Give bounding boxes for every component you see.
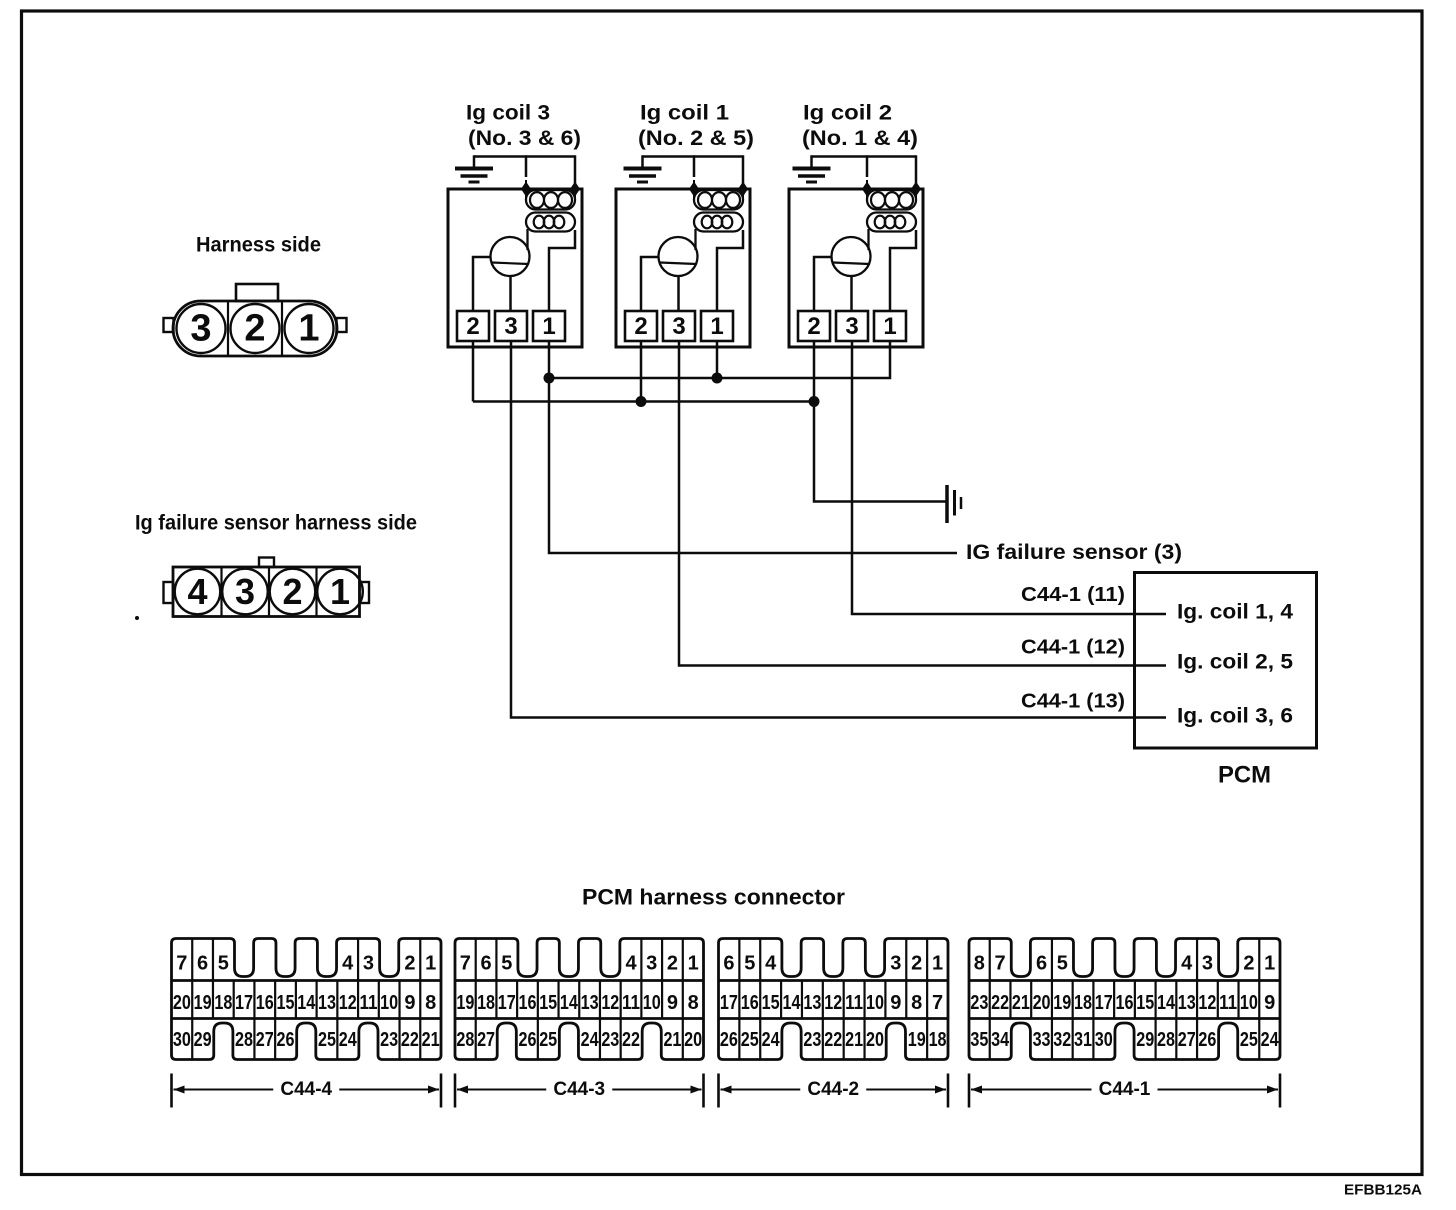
connector C44-3 xyxy=(455,939,704,1060)
svg-text:15: 15 xyxy=(1136,992,1154,1014)
svg-text:12: 12 xyxy=(824,992,842,1014)
svg-text:10: 10 xyxy=(380,992,398,1014)
svg-text:11: 11 xyxy=(359,992,377,1014)
wire secondary to transistor (coil 2) xyxy=(867,229,869,250)
ig coil 2 label xyxy=(802,102,918,151)
svg-text:25: 25 xyxy=(318,1029,336,1051)
svg-text:28: 28 xyxy=(456,1029,474,1051)
node primary right (coil 3) xyxy=(570,180,580,198)
svg-text:24: 24 xyxy=(1261,1029,1280,1051)
wire pin2 bus to ground xyxy=(814,402,946,502)
svg-text:24: 24 xyxy=(339,1029,358,1051)
PCM box xyxy=(1135,573,1317,749)
svg-text:1: 1 xyxy=(883,313,896,340)
wire supply bracket (coil 3) xyxy=(474,155,575,189)
svg-text:27: 27 xyxy=(477,1029,495,1051)
svg-text:13: 13 xyxy=(803,992,821,1014)
svg-text:18: 18 xyxy=(929,1029,947,1051)
svg-text:20: 20 xyxy=(1033,992,1051,1014)
stray mark xyxy=(135,616,139,620)
svg-text:1: 1 xyxy=(330,571,350,612)
primary winding (coil 2) xyxy=(867,190,916,210)
svg-text:24: 24 xyxy=(581,1029,600,1051)
svg-text:5: 5 xyxy=(218,953,229,975)
svg-text:22: 22 xyxy=(991,992,1009,1014)
power transistor (coil 2) xyxy=(832,237,871,276)
svg-text:35: 35 xyxy=(970,1029,988,1051)
svg-text:10: 10 xyxy=(643,992,661,1014)
svg-text:5: 5 xyxy=(744,953,755,975)
svg-text:21: 21 xyxy=(845,1029,863,1051)
svg-text:1: 1 xyxy=(542,313,555,340)
svg-text:17: 17 xyxy=(720,992,738,1014)
svg-text:4: 4 xyxy=(765,953,777,975)
svg-text:6: 6 xyxy=(481,953,492,975)
wire pin2 ground bus xyxy=(473,347,814,402)
svg-text:22: 22 xyxy=(401,1029,419,1051)
dimension C44-4 xyxy=(172,1074,442,1108)
wire coil2 pin3 to PCM C44-1 (11) xyxy=(852,347,1166,614)
svg-text:9: 9 xyxy=(890,992,901,1014)
wire secondary to transistor (coil 3) xyxy=(526,229,528,250)
ig coil 2 box xyxy=(789,189,923,347)
svg-text:8: 8 xyxy=(911,992,922,1014)
svg-text:4: 4 xyxy=(342,953,354,975)
svg-text:5: 5 xyxy=(501,953,512,975)
node primary right (coil 2) xyxy=(911,180,921,198)
svg-text:21: 21 xyxy=(422,1029,440,1051)
svg-text:3: 3 xyxy=(845,313,858,340)
secondary winding (coil 1) xyxy=(694,213,743,232)
svg-text:18: 18 xyxy=(1074,992,1092,1014)
svg-text:3: 3 xyxy=(646,953,657,975)
node primary left (coil 1) xyxy=(689,180,699,198)
svg-text:7: 7 xyxy=(460,953,471,975)
svg-text:EFBB125A: EFBB125A xyxy=(1344,1182,1422,1199)
connector C44-2 xyxy=(719,939,949,1060)
svg-text:2: 2 xyxy=(244,308,265,350)
svg-text:Ig. coil 1, 4: Ig. coil 1, 4 xyxy=(1177,601,1293,624)
svg-text:21: 21 xyxy=(1012,992,1030,1014)
svg-text:11: 11 xyxy=(1219,992,1237,1014)
ig coil 3 label xyxy=(466,102,581,151)
wire to IG failure sensor xyxy=(549,378,957,553)
svg-text:4: 4 xyxy=(1181,953,1193,975)
pin 3 terminal (coil 3) xyxy=(495,311,527,341)
primary winding (coil 1) xyxy=(694,190,743,210)
svg-text:29: 29 xyxy=(194,1029,212,1051)
svg-text:16: 16 xyxy=(1116,992,1134,1014)
dimension C44-2 xyxy=(719,1074,949,1108)
svg-text:7: 7 xyxy=(176,953,187,975)
svg-text:3: 3 xyxy=(190,308,211,350)
svg-text:23: 23 xyxy=(803,1029,821,1051)
svg-text:30: 30 xyxy=(1095,1029,1113,1051)
secondary winding (coil 2) xyxy=(867,213,916,232)
svg-text:31: 31 xyxy=(1074,1029,1092,1051)
wire pin stubs below terminals (coil 3) xyxy=(473,341,549,348)
wire pin stubs below terminals (coil 1) xyxy=(641,341,717,348)
svg-text:26: 26 xyxy=(720,1029,738,1051)
pin 1 terminal (coil 3) xyxy=(533,311,565,341)
svg-text:12: 12 xyxy=(339,992,357,1014)
svg-text:Ig. coil 3, 6: Ig. coil 3, 6 xyxy=(1177,705,1293,728)
pin 3 terminal (coil 1) xyxy=(663,311,695,341)
svg-text:34: 34 xyxy=(991,1029,1010,1051)
harness side connector (coil) xyxy=(164,284,347,356)
svg-text:27: 27 xyxy=(1178,1029,1196,1051)
svg-text:13: 13 xyxy=(581,992,599,1014)
wire emitter to pin 3 (coil 1) xyxy=(677,276,680,311)
svg-text:6: 6 xyxy=(197,953,208,975)
svg-text:13: 13 xyxy=(1178,992,1196,1014)
svg-text:C44-4: C44-4 xyxy=(280,1079,332,1100)
svg-text:12: 12 xyxy=(601,992,619,1014)
node primary left (coil 2) xyxy=(862,180,872,198)
pin 2 terminal (coil 1) xyxy=(625,311,657,341)
svg-text:15: 15 xyxy=(762,992,780,1014)
svg-text:8: 8 xyxy=(425,992,436,1014)
junction coil1 pin1 bus xyxy=(712,373,723,384)
svg-text:15: 15 xyxy=(277,992,295,1014)
svg-text:16: 16 xyxy=(256,992,274,1014)
svg-text:27: 27 xyxy=(256,1029,274,1051)
svg-text:8: 8 xyxy=(974,953,985,975)
svg-text:23: 23 xyxy=(970,992,988,1014)
power transistor (coil 3) xyxy=(491,237,530,276)
svg-text:C44-1 (12): C44-1 (12) xyxy=(1021,637,1125,659)
svg-text:19: 19 xyxy=(456,992,474,1014)
svg-text:C44-3: C44-3 xyxy=(553,1079,605,1100)
svg-text:20: 20 xyxy=(684,1029,702,1051)
wire secondary to pin 1 (coil 2) xyxy=(890,230,916,311)
svg-text:20: 20 xyxy=(173,992,191,1014)
svg-text:6: 6 xyxy=(723,953,734,975)
svg-text:26: 26 xyxy=(1198,1029,1216,1051)
svg-text:(No. 2 & 5): (No. 2 & 5) xyxy=(638,127,754,150)
junction coil3 pin1 bus xyxy=(544,373,555,384)
svg-text:28: 28 xyxy=(235,1029,253,1051)
svg-text:10: 10 xyxy=(1240,992,1258,1014)
svg-text:33: 33 xyxy=(1033,1029,1051,1051)
dimension C44-1 xyxy=(969,1074,1280,1108)
pin 1 terminal (coil 1) xyxy=(701,311,733,341)
svg-text:1: 1 xyxy=(710,313,723,340)
svg-text:1: 1 xyxy=(298,308,319,350)
svg-text:2: 2 xyxy=(282,571,302,612)
svg-text:19: 19 xyxy=(908,1029,926,1051)
svg-text:(No. 1 & 4): (No. 1 & 4) xyxy=(802,127,918,150)
svg-text:30: 30 xyxy=(173,1029,191,1051)
svg-text:25: 25 xyxy=(539,1029,557,1051)
svg-text:Harness side: Harness side xyxy=(196,234,321,257)
svg-text:29: 29 xyxy=(1136,1029,1154,1051)
svg-text:12: 12 xyxy=(1198,992,1216,1014)
wire emitter to pin 3 (coil 2) xyxy=(850,276,853,311)
ig coil 1 box xyxy=(616,189,750,347)
svg-text:C44-2: C44-2 xyxy=(807,1079,859,1100)
svg-text:4: 4 xyxy=(625,953,637,975)
svg-text:22: 22 xyxy=(622,1029,640,1051)
node primary left (coil 3) xyxy=(521,180,531,198)
ig failure sensor connector xyxy=(164,558,370,617)
wire base to pin 2 (coil 3) xyxy=(473,257,491,311)
svg-text:22: 22 xyxy=(824,1029,842,1051)
svg-text:19: 19 xyxy=(194,992,212,1014)
svg-text:(No. 3 & 6): (No. 3 & 6) xyxy=(468,127,581,150)
svg-text:18: 18 xyxy=(477,992,495,1014)
wire pin stubs below terminals (coil 2) xyxy=(814,341,890,348)
wire supply bracket (coil 2) xyxy=(812,155,917,189)
svg-text:26: 26 xyxy=(277,1029,295,1051)
svg-text:10: 10 xyxy=(866,992,884,1014)
svg-text:1: 1 xyxy=(932,953,943,975)
svg-text:3: 3 xyxy=(890,953,901,975)
svg-text:1: 1 xyxy=(688,953,699,975)
pin 1 terminal (coil 2) xyxy=(874,311,906,341)
svg-text:3: 3 xyxy=(504,313,517,340)
svg-text:Ig coil 3: Ig coil 3 xyxy=(466,102,550,125)
svg-text:C44-1 (11): C44-1 (11) xyxy=(1021,584,1125,606)
svg-text:17: 17 xyxy=(498,992,516,1014)
ig coil 3 box xyxy=(448,189,582,347)
pin 2 terminal (coil 3) xyxy=(457,311,489,341)
svg-text:19: 19 xyxy=(1053,992,1071,1014)
ground (pin2 bus) xyxy=(947,485,961,523)
svg-text:23: 23 xyxy=(380,1029,398,1051)
svg-text:11: 11 xyxy=(622,992,640,1014)
ground (coil 1 supply) xyxy=(624,169,662,183)
svg-text:2: 2 xyxy=(667,953,678,975)
ground (coil 3 supply) xyxy=(455,169,493,183)
svg-text:14: 14 xyxy=(560,992,579,1014)
power transistor (coil 1) xyxy=(659,237,698,276)
dimension C44-3 xyxy=(455,1074,704,1108)
wire pin1 bus (coil primaries) xyxy=(549,347,890,378)
svg-text:1: 1 xyxy=(1264,953,1275,975)
primary winding (coil 3) xyxy=(526,190,575,210)
svg-text:20: 20 xyxy=(866,1029,884,1051)
svg-text:14: 14 xyxy=(1157,992,1176,1014)
wire base to pin 2 (coil 2) xyxy=(814,257,832,311)
svg-text:3: 3 xyxy=(363,953,374,975)
svg-text:24: 24 xyxy=(762,1029,781,1051)
svg-text:6: 6 xyxy=(1036,953,1047,975)
svg-text:5: 5 xyxy=(1057,953,1068,975)
svg-text:11: 11 xyxy=(845,992,863,1014)
connector C44-1 xyxy=(969,939,1280,1060)
svg-text:2: 2 xyxy=(911,953,922,975)
svg-text:14: 14 xyxy=(783,992,802,1014)
junction coil2 pin2 bus xyxy=(809,396,820,407)
svg-text:2: 2 xyxy=(466,313,479,340)
wire base to pin 2 (coil 1) xyxy=(641,257,659,311)
svg-text:2: 2 xyxy=(807,313,820,340)
svg-text:25: 25 xyxy=(1240,1029,1258,1051)
wire emitter to pin 3 (coil 3) xyxy=(509,276,512,311)
svg-text:26: 26 xyxy=(518,1029,536,1051)
svg-text:18: 18 xyxy=(214,992,232,1014)
svg-text:23: 23 xyxy=(601,1029,619,1051)
secondary winding (coil 3) xyxy=(526,213,575,232)
svg-text:IG failure sensor (3): IG failure sensor (3) xyxy=(966,541,1182,564)
wire supply bracket (coil 1) xyxy=(643,155,744,189)
svg-text:28: 28 xyxy=(1157,1029,1175,1051)
svg-text:Ig coil 2: Ig coil 2 xyxy=(803,102,892,125)
node primary right (coil 1) xyxy=(738,180,748,198)
svg-text:21: 21 xyxy=(663,1029,681,1051)
svg-text:Ig failure sensor harness side: Ig failure sensor harness side xyxy=(135,512,417,535)
wire coil1 pin3 to PCM C44-1 (12) xyxy=(679,347,1166,666)
svg-text:8: 8 xyxy=(688,992,699,1014)
svg-text:C44-1 (13): C44-1 (13) xyxy=(1021,691,1125,713)
svg-text:15: 15 xyxy=(539,992,557,1014)
svg-text:32: 32 xyxy=(1053,1029,1071,1051)
svg-text:Ig. coil 2, 5: Ig. coil 2, 5 xyxy=(1177,651,1293,674)
svg-text:3: 3 xyxy=(672,313,685,340)
svg-text:7: 7 xyxy=(932,992,943,1014)
svg-text:1: 1 xyxy=(425,953,436,975)
wire secondary to pin 1 (coil 3) xyxy=(549,230,575,311)
pin 3 terminal (coil 2) xyxy=(836,311,868,341)
svg-text:17: 17 xyxy=(235,992,253,1014)
ground (coil 2 supply) xyxy=(793,169,831,183)
svg-text:9: 9 xyxy=(404,992,415,1014)
svg-text:Ig coil 1: Ig coil 1 xyxy=(640,102,729,125)
svg-text:9: 9 xyxy=(1264,992,1275,1014)
wire secondary to pin 1 (coil 1) xyxy=(717,230,743,311)
svg-text:2: 2 xyxy=(634,313,647,340)
connector C44-4 xyxy=(172,939,442,1060)
svg-text:2: 2 xyxy=(404,953,415,975)
svg-text:3: 3 xyxy=(235,571,255,612)
svg-text:7: 7 xyxy=(995,953,1006,975)
svg-text:13: 13 xyxy=(318,992,336,1014)
svg-text:25: 25 xyxy=(741,1029,759,1051)
svg-text:C44-1: C44-1 xyxy=(1099,1079,1151,1100)
svg-text:9: 9 xyxy=(667,992,678,1014)
svg-text:17: 17 xyxy=(1095,992,1113,1014)
svg-text:16: 16 xyxy=(741,992,759,1014)
svg-text:14: 14 xyxy=(297,992,316,1014)
pin 2 terminal (coil 2) xyxy=(798,311,830,341)
svg-text:3: 3 xyxy=(1202,953,1213,975)
junction coil1 pin2 bus xyxy=(636,396,647,407)
svg-text:4: 4 xyxy=(187,571,207,612)
svg-text:2: 2 xyxy=(1243,953,1254,975)
wire coil3 pin3 to PCM C44-1 (13) xyxy=(511,347,1166,718)
svg-text:PCM: PCM xyxy=(1218,762,1271,789)
svg-text:16: 16 xyxy=(518,992,536,1014)
wire secondary to transistor (coil 1) xyxy=(694,229,696,250)
svg-text:PCM harness connector: PCM harness connector xyxy=(582,885,845,910)
ig coil 1 label xyxy=(638,102,754,151)
